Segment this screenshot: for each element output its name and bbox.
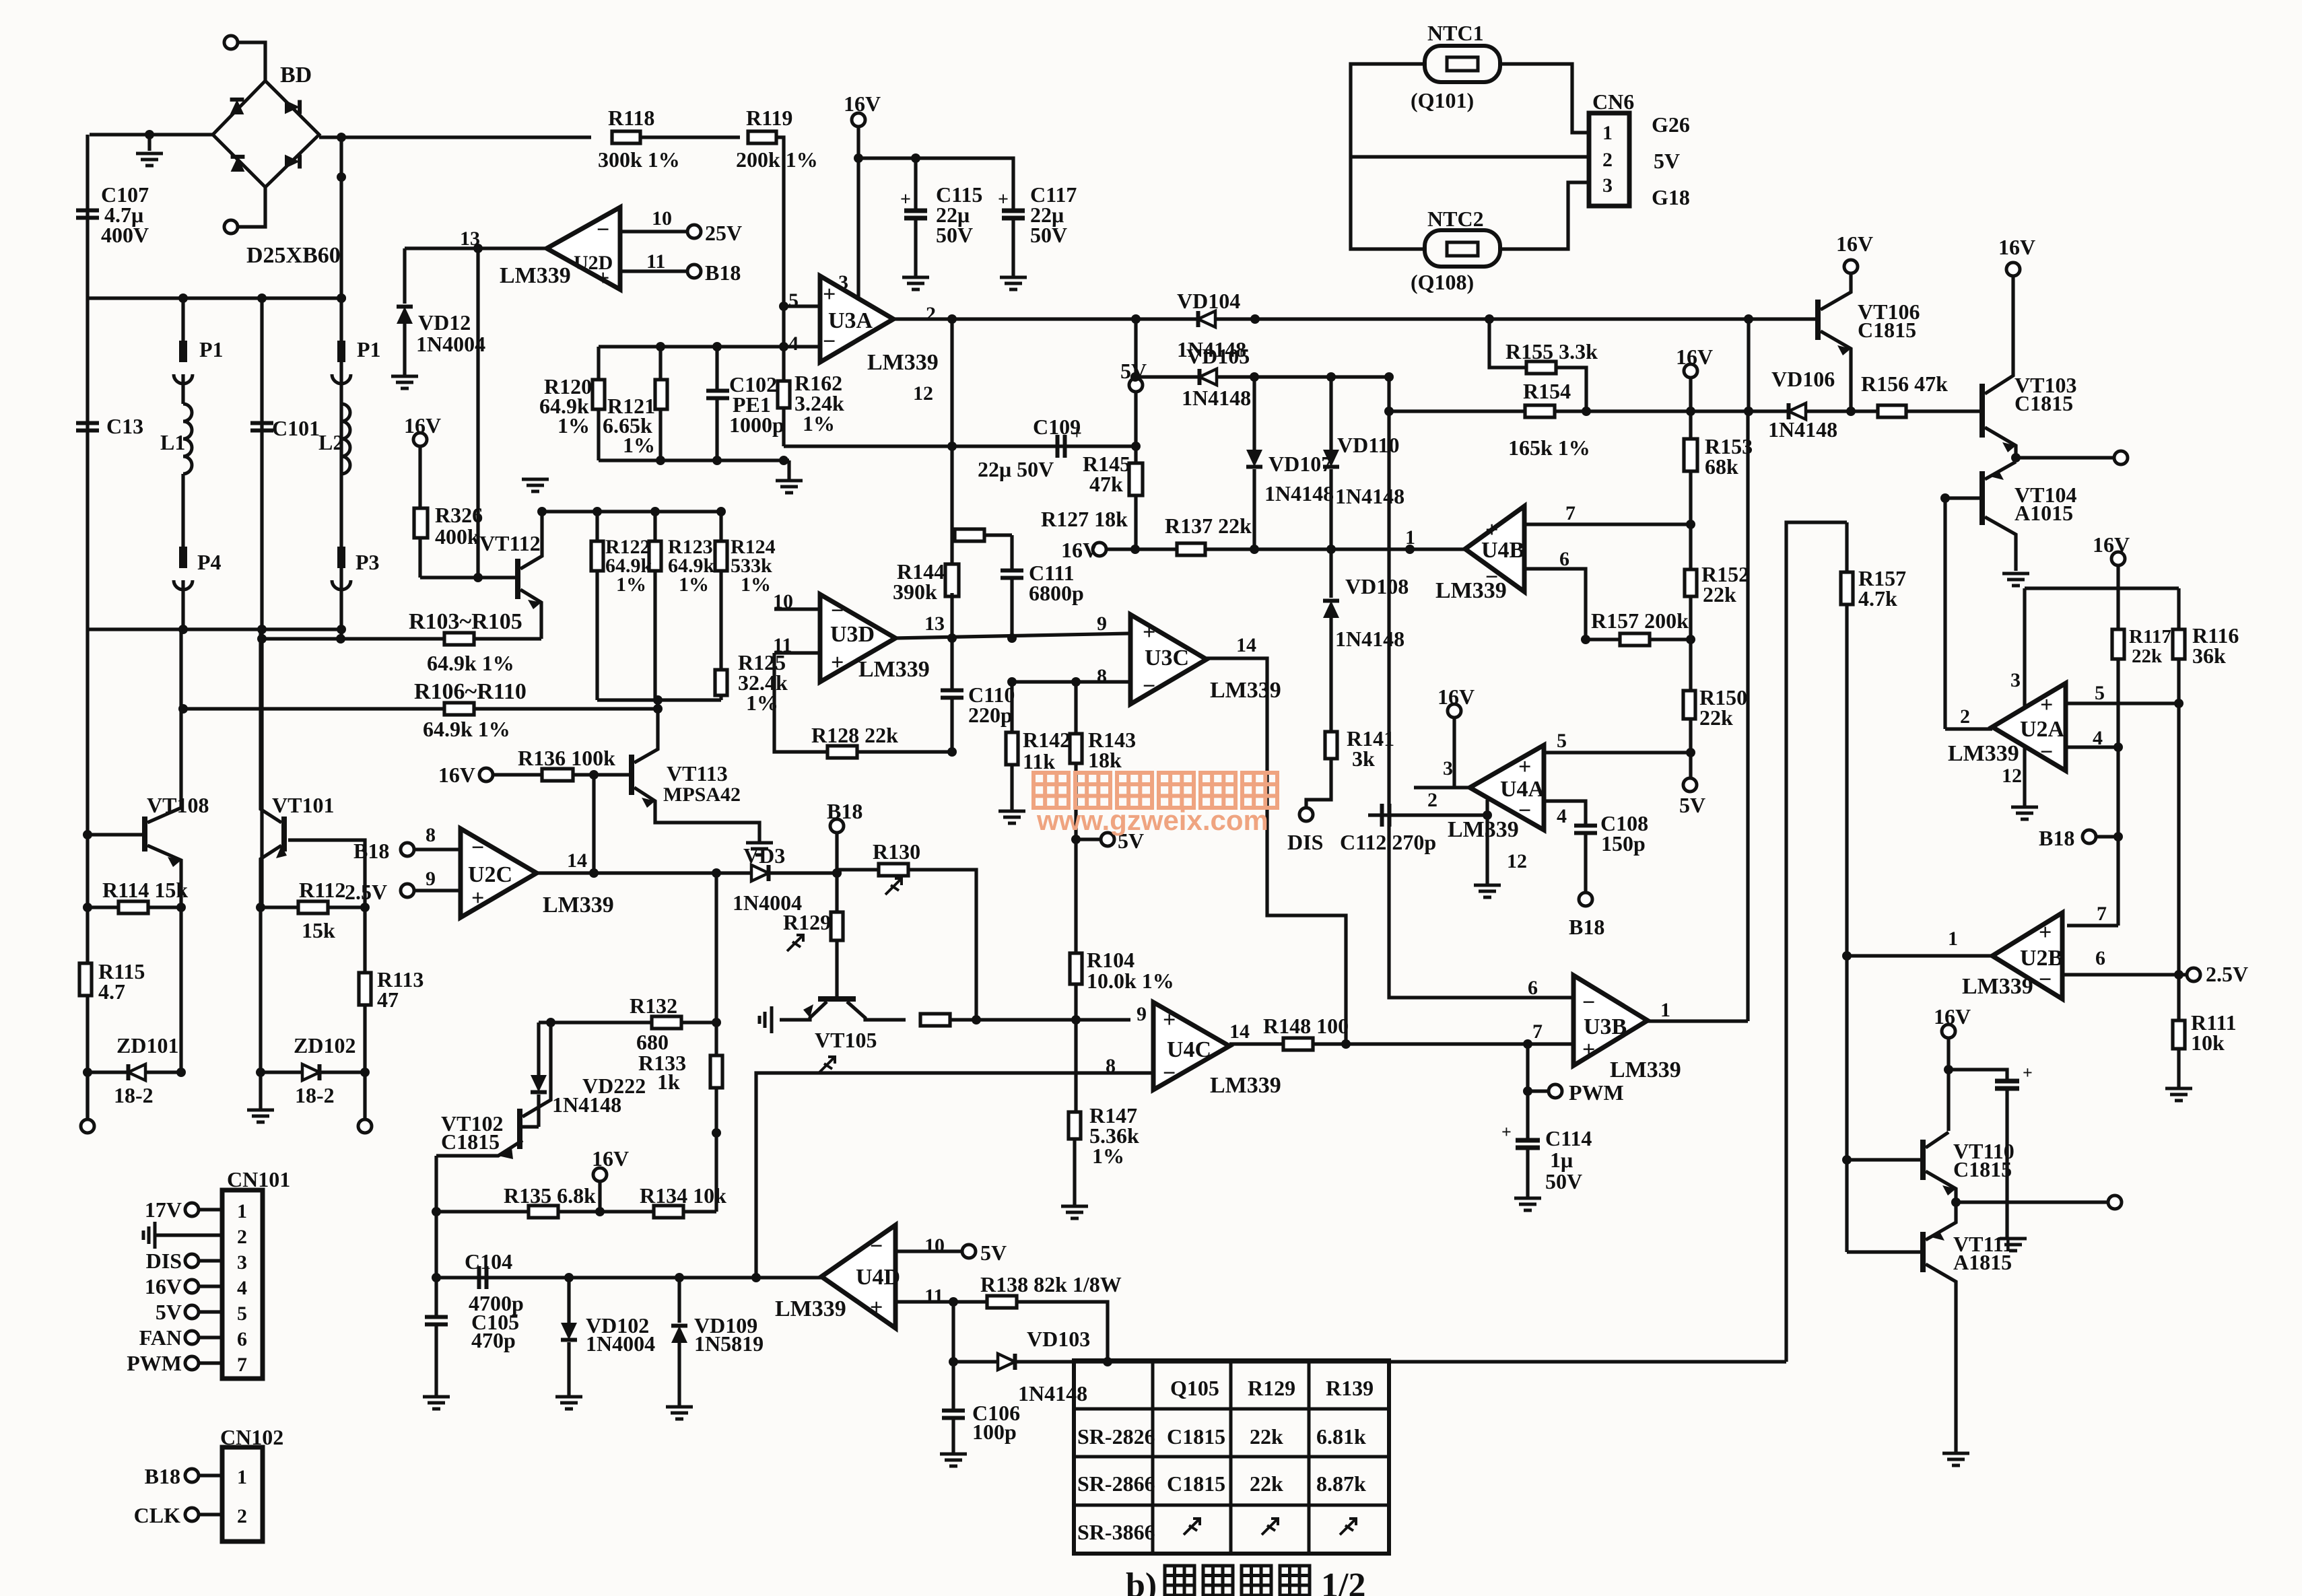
junction xyxy=(83,903,92,912)
wire xyxy=(199,1335,222,1339)
wire xyxy=(199,1361,222,1364)
terminal 2.5V U2C xyxy=(401,884,414,897)
svg-text:−: − xyxy=(597,217,609,242)
wire U2D pin13 xyxy=(405,246,547,250)
op-amp U3D xyxy=(820,594,895,682)
terminal CN101 PWM xyxy=(185,1356,199,1370)
transistor VT113 xyxy=(629,755,634,795)
svg-text:NTC2: NTC2 xyxy=(1427,207,1484,231)
resistor R139 xyxy=(920,1014,950,1026)
svg-text:+: + xyxy=(597,266,609,291)
junction xyxy=(1326,545,1336,554)
junction xyxy=(1485,314,1494,324)
svg-text:+: + xyxy=(471,886,484,911)
svg-text:U4A: U4A xyxy=(1500,777,1545,802)
svg-text:5: 5 xyxy=(788,289,799,312)
wire 5V stub xyxy=(1076,837,1101,841)
junction xyxy=(257,625,267,634)
svg-text:L2: L2 xyxy=(318,430,343,454)
capacitor C114 xyxy=(1516,1140,1540,1148)
junction xyxy=(595,1207,605,1216)
wire xyxy=(835,833,838,912)
ground VD102 xyxy=(555,1397,582,1409)
svg-text:1N4148: 1N4148 xyxy=(552,1092,621,1117)
resistor R122 xyxy=(591,541,603,571)
capacitor C107 xyxy=(76,211,99,218)
variable mark table 1 xyxy=(1184,1519,1200,1535)
resistor R103-R105 xyxy=(444,633,474,645)
svg-text:C114: C114 xyxy=(1545,1126,1592,1150)
bridge diode top-left xyxy=(230,100,244,114)
wire xyxy=(1134,392,1137,446)
svg-text:2: 2 xyxy=(237,1505,247,1527)
wire VT102 base xyxy=(522,1125,539,1128)
resistor R150 xyxy=(1683,691,1695,719)
wire xyxy=(1074,682,1077,734)
resistor R153 xyxy=(1684,439,1697,471)
junction xyxy=(712,1128,721,1138)
junction xyxy=(176,1068,186,1077)
junction xyxy=(653,695,663,705)
svg-text:4: 4 xyxy=(1557,805,1567,827)
transistor VT111 xyxy=(1920,1232,1926,1272)
svg-text:1N4004: 1N4004 xyxy=(416,332,485,356)
wire xyxy=(1011,218,1015,276)
terminal 25V xyxy=(687,225,701,238)
resistor R134 xyxy=(654,1206,683,1218)
wire U2D pin11 xyxy=(620,269,687,273)
junction xyxy=(360,903,370,912)
junction xyxy=(1483,810,1492,820)
junction xyxy=(656,456,665,465)
svg-text:CN102: CN102 xyxy=(220,1425,283,1449)
svg-text:B18: B18 xyxy=(705,261,741,285)
op-amp U4C xyxy=(1153,1002,1229,1090)
wire to R155 xyxy=(1489,319,1526,368)
op-amp U3B xyxy=(1573,975,1648,1066)
terminal 16V U3A xyxy=(852,113,865,127)
junction xyxy=(947,314,957,324)
ground floating near VT112 xyxy=(522,479,549,491)
transistor VT112 xyxy=(515,559,520,599)
svg-text:VD103: VD103 xyxy=(1027,1327,1090,1351)
terminal 5V U3A xyxy=(1129,378,1143,392)
wire xyxy=(1526,1091,1529,1140)
wire left bus x130 xyxy=(86,135,89,1119)
terminal 5V U4D xyxy=(962,1245,976,1258)
svg-text:16V: 16V xyxy=(1676,345,1713,369)
wire VT111 emitter xyxy=(1926,1202,1956,1240)
terminal 2.5V right xyxy=(2187,968,2200,981)
svg-text:16V: 16V xyxy=(592,1146,629,1171)
ground between ZD xyxy=(247,1110,274,1122)
resistor R130 xyxy=(879,864,908,876)
wire VT103 collector xyxy=(1985,275,2013,394)
svg-text:10: 10 xyxy=(652,207,672,230)
svg-text:VD104: VD104 xyxy=(1177,289,1240,313)
junction xyxy=(779,342,788,351)
wire VT101 emitter xyxy=(261,845,281,907)
arrow VT113 emitter xyxy=(642,798,655,808)
wire U2A pin2 xyxy=(1945,727,1992,730)
bridge diode top-right xyxy=(285,100,300,114)
diode ZD102 xyxy=(302,1064,320,1080)
svg-text:R155 3.3k: R155 3.3k xyxy=(1505,339,1598,363)
svg-text:4: 4 xyxy=(237,1277,247,1299)
wire R135 R134 rail xyxy=(436,1210,716,1213)
wire xyxy=(719,695,722,700)
svg-text:18-2: 18-2 xyxy=(114,1083,154,1107)
svg-text:SR-3866: SR-3866 xyxy=(1077,1520,1155,1544)
transformer pickup P4 xyxy=(179,547,187,568)
svg-text:P3: P3 xyxy=(356,550,380,574)
wire R132 rail xyxy=(539,1020,716,1024)
junction xyxy=(432,1273,441,1282)
wire xyxy=(598,1181,601,1212)
wire xyxy=(2005,1088,2008,1237)
svg-text:5V: 5V xyxy=(1679,793,1705,817)
svg-text:5V: 5V xyxy=(156,1300,182,1324)
wire VT112 collector xyxy=(520,512,542,569)
svg-text:+: + xyxy=(2039,920,2052,945)
svg-text:U4C: U4C xyxy=(1167,1037,1211,1062)
resistor R136 xyxy=(542,769,573,781)
wire VT110 emitter xyxy=(1926,1171,1956,1202)
resistor R135 xyxy=(529,1206,558,1218)
wire U4B pin6 xyxy=(1524,569,1586,639)
wire VT113 collector xyxy=(634,709,658,763)
wire U2C out xyxy=(537,871,837,874)
wire top loop right xyxy=(2025,586,2179,590)
transistor VT105 xyxy=(818,996,856,1002)
terminal PWM xyxy=(1549,1084,1562,1098)
wire U3D out to U3C pin9 xyxy=(895,633,1130,638)
svg-text:1N4148: 1N4148 xyxy=(1018,1381,1087,1406)
svg-text:LM339: LM339 xyxy=(858,657,930,682)
variable mark table 3 xyxy=(1340,1519,1356,1535)
wire U4A pin2 stub xyxy=(1414,786,1470,789)
svg-text:B18: B18 xyxy=(145,1464,180,1488)
svg-text:R326: R326 xyxy=(435,503,483,527)
wire VT104 emitter xyxy=(1985,462,2016,479)
wire VT103 emitter xyxy=(1985,427,2016,458)
junction xyxy=(178,293,188,303)
junction xyxy=(336,634,345,644)
junction xyxy=(712,868,721,878)
wire xyxy=(403,324,406,375)
junction xyxy=(1686,748,1695,757)
wire xyxy=(1689,753,1692,778)
wire R138 loop xyxy=(1017,1302,1108,1362)
svg-text:U3A: U3A xyxy=(828,308,873,333)
capacitor C109 xyxy=(1058,435,1065,458)
wire R128 rail xyxy=(774,653,952,752)
junction xyxy=(1944,1065,1953,1074)
arrow VT105 emitter xyxy=(803,1004,813,1018)
wire xyxy=(1689,719,1692,753)
svg-text:U3B: U3B xyxy=(1584,1014,1627,1039)
diode VD104 xyxy=(1198,311,1216,327)
svg-text:5: 5 xyxy=(1557,730,1567,752)
terminal CN101 FAN xyxy=(185,1331,199,1344)
svg-text:R138 82k 1/8W: R138 82k 1/8W xyxy=(980,1272,1122,1296)
resistor R112 xyxy=(298,901,328,913)
junction xyxy=(546,1018,555,1027)
svg-text:16V: 16V xyxy=(844,92,881,116)
svg-text:2: 2 xyxy=(237,1226,247,1248)
svg-text:LM339: LM339 xyxy=(1610,1057,1681,1082)
ground R111 xyxy=(2165,1088,2192,1101)
svg-text:8.87k: 8.87k xyxy=(1316,1471,1366,1496)
wire U4B pin7 xyxy=(1524,522,1691,526)
junction xyxy=(1130,545,1140,554)
ground bus684 xyxy=(776,481,803,493)
svg-text:165k 1%: 165k 1% xyxy=(1508,436,1590,460)
junction xyxy=(1384,407,1394,416)
svg-text:+: + xyxy=(2023,1063,2033,1082)
junction xyxy=(1007,677,1017,687)
svg-text:2.5V: 2.5V xyxy=(2206,962,2248,986)
svg-text:SR-2866: SR-2866 xyxy=(1077,1471,1155,1496)
arrow VT101 emitter xyxy=(276,845,287,858)
wire U4A pin4 to C108 xyxy=(1544,801,1586,825)
connector CN102 xyxy=(222,1447,263,1541)
wire xyxy=(951,1302,955,1362)
svg-text:7: 7 xyxy=(1565,502,1576,524)
svg-text:+: + xyxy=(1582,1037,1595,1062)
wire R119 down x1164 xyxy=(776,137,784,446)
capacitor C102 xyxy=(706,391,729,398)
svg-text:+: + xyxy=(2040,693,2053,718)
svg-text:VD105: VD105 xyxy=(1186,344,1250,368)
svg-text:22μ 50V: 22μ 50V xyxy=(978,457,1054,481)
junction xyxy=(1582,407,1591,416)
connector CN101 xyxy=(222,1190,263,1379)
junction xyxy=(2113,832,2123,841)
wire x2743 vertical xyxy=(1845,604,1848,1252)
resistor R162 xyxy=(778,381,790,408)
svg-text:P1: P1 xyxy=(357,337,381,361)
svg-text:1N4148: 1N4148 xyxy=(1182,386,1251,410)
svg-text:R128 22k: R128 22k xyxy=(811,723,898,747)
junction xyxy=(257,634,267,644)
resistor R155 xyxy=(1526,361,1556,374)
svg-text:16V: 16V xyxy=(2093,532,2130,557)
ground VD109 xyxy=(666,1407,693,1419)
svg-text:C1815: C1815 xyxy=(1858,318,1916,342)
capacitor C117 xyxy=(1002,211,1025,218)
wire xyxy=(537,1095,540,1127)
connector CN6 xyxy=(1589,113,1629,206)
junction xyxy=(854,153,863,163)
svg-text:R142: R142 xyxy=(1023,728,1071,752)
junction at x507 top xyxy=(337,133,346,142)
svg-text:1%: 1% xyxy=(741,574,771,596)
arrow VT103 emitter xyxy=(2002,442,2016,452)
svg-text:11: 11 xyxy=(646,250,665,273)
wire xyxy=(1329,469,1332,549)
wire xyxy=(1010,765,1013,810)
svg-text:A1015: A1015 xyxy=(2015,501,2073,525)
wire xyxy=(653,571,656,700)
capacitor C111 xyxy=(1001,571,1023,578)
wire xyxy=(199,1473,222,1477)
svg-text:LM339: LM339 xyxy=(775,1296,846,1321)
junction xyxy=(337,172,346,182)
terminal 5V right xyxy=(1683,778,1697,792)
wire ZD102 rail xyxy=(261,1070,365,1074)
svg-text:A1815: A1815 xyxy=(1953,1250,2012,1274)
diode VD103 xyxy=(998,1354,1015,1370)
wire U4D pin10 xyxy=(895,1249,962,1253)
wire xyxy=(199,1513,222,1516)
junction xyxy=(1341,1039,1351,1049)
wire U3D pin10 xyxy=(774,607,820,611)
svg-text:C13: C13 xyxy=(106,414,143,438)
svg-text:R157 200k: R157 200k xyxy=(1591,609,1689,633)
junction xyxy=(178,704,188,714)
wire R155 to R154 rail xyxy=(1556,368,1586,411)
resistor R113 xyxy=(359,973,371,1005)
svg-text:13: 13 xyxy=(924,613,945,635)
svg-text:16V: 16V xyxy=(1437,685,1475,709)
resistor R119 xyxy=(748,131,776,143)
wire xyxy=(567,1342,570,1395)
svg-text:(Q101): (Q101) xyxy=(1411,88,1474,112)
svg-text:R114 15k: R114 15k xyxy=(102,878,188,902)
wire VT106 collector xyxy=(1821,273,1851,310)
terminal CN101 5V xyxy=(185,1305,199,1319)
capacitor C13 xyxy=(76,423,99,431)
resistor R157 4.7k xyxy=(1841,572,1853,604)
svg-text:16V: 16V xyxy=(1934,1004,1971,1029)
resistor R145 xyxy=(1129,463,1143,495)
svg-text:L1: L1 xyxy=(160,430,185,454)
ground U2A xyxy=(2011,807,2038,819)
ground VT104 xyxy=(2002,574,2029,586)
wire VD105 rail xyxy=(1135,375,1389,378)
junction xyxy=(83,1068,92,1077)
wire VT104 collector xyxy=(1985,517,2016,571)
wire x2596 vertical xyxy=(1746,411,1749,1021)
terminal B18 right xyxy=(2083,830,2096,843)
wire R116 line down xyxy=(2177,659,2180,975)
junction xyxy=(1581,635,1590,644)
wire U4A pin12 vertical xyxy=(1485,800,1489,884)
wire xyxy=(677,1278,681,1323)
capacitor C106 xyxy=(942,1411,965,1418)
junction xyxy=(564,1273,574,1282)
svg-text:C1815: C1815 xyxy=(1167,1471,1225,1496)
resistor R125 xyxy=(715,670,727,695)
junction xyxy=(947,442,957,451)
svg-text:D25XB60: D25XB60 xyxy=(246,243,341,268)
capacitor C110 xyxy=(941,691,963,698)
svg-text:50V: 50V xyxy=(1545,1169,1582,1193)
junction VT103-VT104 xyxy=(2011,453,2021,462)
wire xyxy=(1074,984,1077,1020)
wire xyxy=(950,697,953,752)
svg-text:7: 7 xyxy=(237,1354,247,1376)
ground U4A pin12 xyxy=(1474,885,1501,897)
svg-text:5V: 5V xyxy=(1654,149,1680,173)
arrow VT111 emitter xyxy=(1931,1230,1944,1241)
terminal B18 U2C xyxy=(401,843,414,856)
junction xyxy=(537,507,547,516)
wire xyxy=(1074,1020,1077,1112)
wire vertical bus x507 xyxy=(339,137,343,639)
svg-text:12: 12 xyxy=(1507,850,1527,872)
svg-text:LM339: LM339 xyxy=(1448,817,1519,842)
svg-text:U2C: U2C xyxy=(468,862,512,887)
junction xyxy=(1940,493,1950,503)
junction xyxy=(1071,835,1081,844)
resistor R143 xyxy=(1070,734,1082,763)
junction xyxy=(593,507,602,516)
svg-text:R117: R117 xyxy=(2129,626,2171,648)
inductor L2 xyxy=(341,404,350,474)
terminal DIS xyxy=(1299,808,1313,821)
junction xyxy=(178,625,188,634)
transistor VT103 xyxy=(1979,384,1985,438)
wire x2597 drop xyxy=(1747,319,1750,411)
svg-text:1: 1 xyxy=(237,1200,247,1222)
resistor R144 xyxy=(945,564,959,596)
wire x1414 upper xyxy=(950,319,953,535)
svg-text:VD3: VD3 xyxy=(743,843,785,868)
wire xyxy=(2177,1049,2180,1087)
svg-text:C1815: C1815 xyxy=(441,1130,500,1154)
svg-text:5: 5 xyxy=(2095,682,2105,704)
resistor R141 xyxy=(1325,732,1337,759)
wire x269 lower xyxy=(179,907,182,1072)
wire R154-VD106-R156 rail xyxy=(1389,409,1982,413)
wire VT112 base xyxy=(420,576,518,579)
wire VT110 base xyxy=(1847,1158,1923,1161)
wire U3B out xyxy=(1648,1019,1748,1022)
svg-text:8: 8 xyxy=(1097,665,1107,687)
wire xyxy=(1526,1148,1529,1197)
junction xyxy=(1842,951,1852,961)
diode VD105 xyxy=(1200,369,1217,385)
diode VD108 xyxy=(1323,601,1339,619)
wire VT108 collector xyxy=(147,629,181,823)
junction xyxy=(176,903,186,912)
arrow VT102 emitter xyxy=(498,1148,513,1159)
junction xyxy=(1686,520,1695,529)
svg-text:1%: 1% xyxy=(557,413,590,438)
resistor R111 xyxy=(2173,1020,2185,1049)
svg-text:300k 1%: 300k 1% xyxy=(598,147,680,172)
variable mark R130 xyxy=(885,878,902,895)
svg-text:R137 22k: R137 22k xyxy=(1165,514,1252,538)
svg-text:16V: 16V xyxy=(1998,235,2035,259)
svg-text:R136 100k: R136 100k xyxy=(518,746,615,770)
wire U2B pin6 to 2.5V xyxy=(2062,973,2187,976)
wire R122-R125 bottom bus xyxy=(597,698,721,701)
svg-text:6: 6 xyxy=(1559,548,1569,570)
wire emitter junction to terminal xyxy=(2016,456,2114,459)
svg-text:1%: 1% xyxy=(616,574,646,596)
junction xyxy=(751,1273,761,1282)
wire xyxy=(719,571,722,670)
wire xyxy=(1010,535,1013,571)
svg-text:VD12: VD12 xyxy=(418,310,471,335)
wire U3C out down xyxy=(1207,658,1346,1044)
wire CN101 pin2 xyxy=(155,1233,222,1237)
svg-text:22k: 22k xyxy=(1699,705,1733,730)
wire VT110 collector diag xyxy=(1926,1132,1949,1148)
